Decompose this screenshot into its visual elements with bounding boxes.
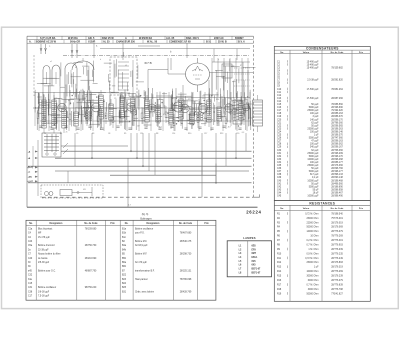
svg-text:28/747.060: 28/747.060 bbox=[331, 138, 343, 140]
svg-text:2n: 2n bbox=[226, 120, 228, 122]
svg-text:C20: C20 bbox=[236, 133, 239, 135]
svg-text:28/287.266: 28/287.266 bbox=[331, 98, 343, 100]
svg-text:28/196.370: 28/196.370 bbox=[331, 135, 343, 137]
svg-text:No. de Code: No. de Code bbox=[179, 223, 193, 225]
svg-text:10000 Ohm: 10000 Ohm bbox=[306, 271, 318, 273]
svg-text:C13: C13 bbox=[277, 98, 282, 100]
svg-text:C10: C10 bbox=[277, 89, 282, 91]
svg-text:R17: R17 bbox=[277, 284, 282, 286]
svg-text:Valeur: Valeur bbox=[303, 208, 310, 210]
svg-text:28/776.235: 28/776.235 bbox=[331, 253, 343, 255]
svg-text:Bobine pour O.C.: Bobine pour O.C. bbox=[38, 269, 56, 272]
svg-text:b: b bbox=[100, 59, 101, 61]
svg-text:28/325.131: 28/325.131 bbox=[180, 270, 192, 272]
svg-text:Désignation: Désignation bbox=[50, 222, 64, 225]
svg-text:78/286.560: 78/286.560 bbox=[331, 104, 343, 106]
svg-text:28/296.170: 28/296.170 bbox=[331, 119, 343, 121]
svg-text:B24: B24 bbox=[122, 283, 127, 285]
svg-text:Valeur: Valeur bbox=[303, 52, 310, 54]
svg-text:140 µµF: 140 µµF bbox=[310, 119, 319, 121]
svg-text:617 µµF: 617 µµF bbox=[310, 174, 319, 176]
svg-text:Bobine d'accord: Bobine d'accord bbox=[38, 244, 55, 247]
svg-text:78/159.682: 78/159.682 bbox=[331, 67, 343, 69]
svg-text:7,5-38 µµF: 7,5-38 µµF bbox=[38, 296, 50, 298]
svg-text:28/196.263: 28/196.263 bbox=[331, 128, 343, 130]
svg-text:25000 Ohm: 25000 Ohm bbox=[306, 262, 318, 264]
svg-text:a1: a1 bbox=[50, 61, 52, 63]
svg-text:28/176.069: 28/176.069 bbox=[331, 227, 343, 229]
svg-text:a: a bbox=[212, 119, 213, 121]
svg-text:Noyau bobine du fibre: Noyau bobine du fibre bbox=[38, 253, 61, 256]
svg-text:28/196.177: 28/196.177 bbox=[331, 171, 343, 173]
svg-text:28/296.565: 28/296.565 bbox=[331, 125, 343, 127]
svg-text:98/756.240: 98/756.240 bbox=[85, 287, 97, 289]
svg-text:28/756.760: 28/756.760 bbox=[85, 245, 97, 247]
svg-text:No. de Code: No. de Code bbox=[331, 208, 345, 210]
svg-text:C31: C31 bbox=[28, 287, 33, 289]
svg-text:Bobine M.F.: Bobine M.F. bbox=[135, 241, 147, 243]
svg-text:50000 Ohm: 50000 Ohm bbox=[306, 227, 318, 229]
svg-text:0,2 M. Ohm: 0,2 M. Ohm bbox=[307, 240, 319, 242]
svg-text:C22: C22 bbox=[277, 125, 282, 127]
svg-text:MF: MF bbox=[38, 233, 42, 235]
svg-text:15-490 µµF: 15-490 µµF bbox=[307, 67, 319, 69]
svg-text:C40: C40 bbox=[28, 258, 33, 260]
svg-text:0,5: 0,5 bbox=[55, 106, 57, 108]
svg-text:62 µµF: 62 µµF bbox=[311, 122, 319, 124]
svg-text:10000 µµF: 10000 µµF bbox=[307, 159, 319, 161]
svg-text:48/887.790: 48/887.790 bbox=[85, 270, 97, 272]
svg-text:50 µµF: 50 µµF bbox=[311, 168, 319, 170]
svg-text:32-170 µµF: 32-170 µµF bbox=[135, 262, 147, 264]
svg-text:C12: C12 bbox=[143, 98, 146, 100]
svg-text:1 µF: 1 µF bbox=[314, 267, 319, 269]
svg-text:Désignation: Désignation bbox=[147, 222, 161, 225]
svg-text:0,1: 0,1 bbox=[240, 115, 242, 117]
svg-text:28/296.766: 28/296.766 bbox=[331, 168, 343, 170]
svg-text:C14: C14 bbox=[277, 101, 282, 103]
svg-text:C23: C23 bbox=[28, 241, 33, 243]
svg-text:14000 Ohm: 14000 Ohm bbox=[306, 231, 318, 233]
svg-text:28/776.798: 28/776.798 bbox=[331, 289, 343, 291]
svg-text:R10: R10 bbox=[188, 133, 191, 135]
svg-text:2n: 2n bbox=[66, 132, 68, 134]
svg-text:25000 µµF: 25000 µµF bbox=[307, 110, 319, 112]
svg-text:A.: A. bbox=[29, 41, 32, 44]
svg-text:6I7 B: 6I7 B bbox=[145, 61, 152, 65]
svg-text:C32: C32 bbox=[28, 275, 33, 277]
svg-text:R13: R13 bbox=[220, 133, 223, 135]
svg-text:28/776.039: 28/776.039 bbox=[331, 249, 343, 251]
svg-text:C41: C41 bbox=[277, 183, 282, 185]
svg-text:+(B): +(B) bbox=[28, 177, 32, 179]
svg-text:540 µµF: 540 µµF bbox=[310, 147, 319, 149]
svg-text:C21: C21 bbox=[228, 98, 231, 100]
svg-text:No. de Code: No. de Code bbox=[331, 52, 345, 54]
svg-text:C29: C29 bbox=[277, 147, 282, 149]
svg-text:28/296.468: 28/296.468 bbox=[331, 159, 343, 161]
svg-text:28/546.175: 28/546.175 bbox=[180, 241, 192, 243]
svg-text:22-38 µµF: 22-38 µµF bbox=[38, 249, 49, 251]
svg-text:6E8: 6E8 bbox=[252, 245, 257, 247]
svg-text:6M7: 6M7 bbox=[252, 253, 257, 255]
svg-text:C1: C1 bbox=[40, 99, 42, 101]
svg-text:25000 µµF: 25000 µµF bbox=[307, 165, 319, 167]
svg-text:Bobine oscillateur: Bobine oscillateur bbox=[38, 286, 56, 289]
svg-text:C34: C34 bbox=[277, 162, 282, 164]
svg-text:R14: R14 bbox=[277, 271, 282, 273]
svg-text:757/76.019: 757/76.019 bbox=[331, 218, 343, 220]
svg-text:3000 Ohm: 3000 Ohm bbox=[308, 289, 319, 291]
svg-text:10k: 10k bbox=[193, 102, 196, 104]
svg-text:C11: C11 bbox=[140, 133, 143, 135]
svg-text:3 µµF: 3 µµF bbox=[313, 116, 320, 118]
svg-text:R2: R2 bbox=[68, 100, 70, 102]
svg-text:62 µµF: 62 µµF bbox=[311, 150, 319, 152]
svg-text:LAMPES: LAMPES bbox=[243, 236, 255, 240]
svg-text:B23: B23 bbox=[122, 279, 127, 281]
svg-text:470: 470 bbox=[149, 112, 152, 114]
svg-text:R15: R15 bbox=[277, 276, 282, 278]
svg-text:28/776.903: 28/776.903 bbox=[331, 244, 343, 246]
svg-text:28/286.177: 28/286.177 bbox=[331, 162, 343, 164]
svg-text:0,7 M. Ohm: 0,7 M. Ohm bbox=[307, 244, 319, 246]
svg-text:R12: R12 bbox=[277, 262, 282, 264]
svg-text:4,7: 4,7 bbox=[128, 205, 131, 207]
svg-text:EF9: EF9 bbox=[252, 249, 257, 251]
svg-text:B 51: B 51 bbox=[206, 41, 212, 44]
svg-text:CONDENSE 2.R 65: CONDENSE 2.R 65 bbox=[169, 41, 191, 44]
svg-text:25000 µµF: 25000 µµF bbox=[307, 153, 319, 155]
svg-text:6,3: 6,3 bbox=[242, 132, 244, 134]
svg-text:78/159.680: 78/159.680 bbox=[85, 228, 97, 230]
svg-text:28/496.560: 28/496.560 bbox=[331, 183, 343, 185]
svg-text:28/176.019: 28/176.019 bbox=[331, 222, 343, 224]
svg-text:B22: B22 bbox=[122, 275, 127, 277]
svg-text:28/776.839: 28/776.839 bbox=[331, 284, 343, 286]
svg-text:Bobine oscillateur: Bobine oscillateur bbox=[135, 227, 153, 230]
svg-text:28/286.163: 28/286.163 bbox=[331, 113, 343, 115]
svg-text:R5: R5 bbox=[124, 133, 126, 135]
svg-text:50 µµF: 50 µµF bbox=[311, 125, 319, 127]
svg-text:R6: R6 bbox=[128, 99, 130, 101]
svg-text:28/286.958: 28/286.958 bbox=[331, 189, 343, 191]
svg-text:50 µµF: 50 µµF bbox=[311, 183, 319, 185]
svg-text:6V6: 6V6 bbox=[252, 261, 257, 263]
svg-text:R16: R16 bbox=[277, 280, 282, 282]
svg-text:78/776.269: 78/776.269 bbox=[331, 236, 343, 238]
svg-text:R16: R16 bbox=[244, 99, 247, 101]
svg-text:16 µF: 16 µF bbox=[313, 192, 320, 194]
svg-text:C38: C38 bbox=[277, 174, 282, 176]
svg-text:k3: k3 bbox=[125, 65, 127, 67]
svg-text:50 µµF: 50 µµF bbox=[311, 104, 319, 106]
svg-text:C12: C12 bbox=[277, 95, 282, 97]
svg-text:470: 470 bbox=[64, 116, 67, 118]
svg-text:RESISTANCES: RESISTANCES bbox=[309, 202, 335, 206]
svg-text:10000 µµF: 10000 µµF bbox=[307, 180, 319, 182]
svg-text:C5: C5 bbox=[76, 133, 78, 135]
svg-text:C18: C18 bbox=[277, 113, 282, 115]
svg-text:17-530 µµF: 17-530 µµF bbox=[307, 89, 319, 91]
svg-text:C43: C43 bbox=[277, 189, 282, 191]
svg-text:25: 25 bbox=[110, 119, 112, 121]
svg-text:C42: C42 bbox=[277, 186, 282, 188]
svg-text:C36: C36 bbox=[277, 168, 282, 170]
svg-text:28/216.690: 28/216.690 bbox=[85, 258, 97, 260]
svg-text:6,3: 6,3 bbox=[122, 100, 124, 102]
svg-text:Prix: Prix bbox=[110, 222, 115, 225]
svg-text:28/196.690: 28/196.690 bbox=[331, 107, 343, 109]
svg-text:25000 µµF: 25000 µµF bbox=[307, 128, 319, 130]
svg-text:4k7: 4k7 bbox=[228, 127, 231, 129]
svg-text:W.AL. 50: W.AL. 50 bbox=[147, 41, 158, 44]
svg-text:R14: R14 bbox=[216, 99, 219, 101]
svg-text:B4a: B4a bbox=[122, 245, 127, 247]
svg-text:B871-67: B871-67 bbox=[252, 269, 262, 271]
svg-text:R13: R13 bbox=[277, 267, 282, 269]
svg-text:25 W. B: 25 W. B bbox=[218, 41, 227, 44]
svg-text:28/396.490: 28/396.490 bbox=[331, 196, 343, 198]
svg-text:50000 Ohm: 50000 Ohm bbox=[306, 293, 318, 295]
svg-text:C21: C21 bbox=[277, 122, 282, 124]
svg-text:C30: C30 bbox=[277, 150, 282, 152]
svg-text:C27: C27 bbox=[277, 141, 282, 143]
svg-text:R3: R3 bbox=[92, 133, 94, 135]
svg-text:AL 25: AL 25 bbox=[103, 41, 110, 44]
svg-text:C44: C44 bbox=[277, 192, 282, 194]
svg-text:28/286.362: 28/286.362 bbox=[331, 144, 343, 146]
svg-text:47 µµF: 47 µµF bbox=[311, 141, 319, 143]
svg-text:78/487.680: 78/487.680 bbox=[180, 233, 192, 235]
svg-text:5000 µµF: 5000 µµF bbox=[309, 186, 319, 188]
svg-text:28/776.079: 28/776.079 bbox=[331, 231, 343, 233]
svg-text:C1a: C1a bbox=[28, 228, 33, 230]
svg-text:1 µF: 1 µF bbox=[314, 135, 319, 137]
svg-text:B1a: B1a bbox=[122, 228, 127, 230]
svg-text:0,9 M. Ohm: 0,9 M. Ohm bbox=[307, 253, 319, 255]
svg-text:100 µµF: 100 µµF bbox=[310, 113, 319, 115]
svg-text:R9: R9 bbox=[159, 99, 161, 101]
svg-text:100 µµF: 100 µµF bbox=[310, 162, 319, 164]
svg-text:100 µµF: 100 µµF bbox=[310, 131, 319, 133]
svg-text:28/196.467: 28/196.467 bbox=[331, 192, 343, 194]
svg-text:C2: C2 bbox=[44, 133, 46, 135]
svg-text:B.V. 6: B.V. 6 bbox=[238, 41, 245, 44]
svg-text:Prix: Prix bbox=[204, 222, 209, 225]
svg-text:28/196.170: 28/196.170 bbox=[331, 156, 343, 158]
svg-text:28/176.319: 28/176.319 bbox=[331, 267, 343, 269]
svg-text:22000 Ohm: 22000 Ohm bbox=[306, 222, 318, 224]
svg-text:(+)HT: (+)HT bbox=[28, 181, 34, 183]
svg-text:Bloc bicontact: Bloc bicontact bbox=[38, 227, 53, 230]
svg-text:50: 50 bbox=[222, 116, 224, 118]
svg-text:28/786.360: 28/786.360 bbox=[331, 122, 343, 124]
svg-text:transformateur B.F.: transformateur B.F. bbox=[135, 269, 155, 272]
svg-text:B6a: B6a bbox=[122, 262, 127, 264]
svg-text:0,7 M. Ohm: 0,7 M. Ohm bbox=[307, 284, 319, 286]
svg-text:4k7: 4k7 bbox=[204, 118, 207, 120]
svg-text:B25: B25 bbox=[122, 287, 127, 289]
svg-text:C16: C16 bbox=[277, 107, 282, 109]
svg-text:28/293.148: 28/293.148 bbox=[331, 177, 343, 179]
svg-text:470: 470 bbox=[163, 114, 166, 116]
svg-text:C31: C31 bbox=[277, 153, 282, 155]
svg-text:C15: C15 bbox=[277, 104, 282, 106]
svg-text:No.: No. bbox=[125, 223, 129, 225]
svg-text:30000 Ohm: 30000 Ohm bbox=[306, 276, 318, 278]
svg-text:C23: C23 bbox=[277, 128, 282, 130]
svg-text:C17: C17 bbox=[277, 110, 282, 112]
svg-text:No.: No. bbox=[280, 208, 284, 210]
svg-text:28/281.820: 28/281.820 bbox=[331, 80, 343, 82]
svg-text:Châs. avec bobine: Châs. avec bobine bbox=[135, 291, 155, 293]
svg-text:28/428.769: 28/428.769 bbox=[180, 291, 192, 293]
svg-text:C5a: C5a bbox=[28, 245, 33, 247]
svg-text:B31: B31 bbox=[122, 291, 127, 293]
svg-text:C9: C9 bbox=[114, 98, 116, 100]
svg-text:0,1 µF: 0,1 µF bbox=[312, 177, 319, 179]
svg-text:28/176.366: 28/176.366 bbox=[331, 165, 343, 167]
svg-text:k2: k2 bbox=[217, 123, 219, 125]
svg-text:R11: R11 bbox=[188, 99, 191, 101]
svg-text:28/176.239: 28/176.239 bbox=[331, 276, 343, 278]
svg-text:CHANGEUR 250: CHANGEUR 250 bbox=[116, 41, 135, 44]
svg-text:EBL1: EBL1 bbox=[252, 257, 259, 259]
svg-text:28/776.319: 28/776.319 bbox=[331, 240, 343, 242]
svg-text:k2: k2 bbox=[101, 112, 103, 114]
svg-text:10 Ohm: 10 Ohm bbox=[310, 236, 318, 238]
svg-text:C7: C7 bbox=[84, 98, 86, 100]
svg-text:C35: C35 bbox=[277, 165, 282, 167]
svg-text:28/296.167: 28/296.167 bbox=[331, 147, 343, 149]
svg-text:0,5: 0,5 bbox=[205, 109, 207, 111]
svg-text:770/41.827: 770/41.827 bbox=[331, 293, 343, 295]
svg-text:5000 µµF: 5000 µµF bbox=[309, 156, 319, 158]
svg-text:28/766.366: 28/766.366 bbox=[331, 150, 343, 152]
svg-text:C17: C17 bbox=[204, 133, 207, 135]
svg-text:pour P.O.: pour P.O. bbox=[135, 232, 145, 235]
svg-text:(B+C): (B+C) bbox=[28, 167, 34, 169]
svg-text:17-530 µµF: 17-530 µµF bbox=[307, 98, 319, 100]
svg-text:CONDENSATEURS: CONDENSATEURS bbox=[306, 47, 339, 51]
svg-text:28/776.249: 28/776.249 bbox=[331, 258, 343, 260]
svg-text:No.: No. bbox=[29, 223, 33, 225]
svg-text:C19: C19 bbox=[277, 116, 282, 118]
svg-text:C32: C32 bbox=[277, 156, 282, 158]
svg-text:78/198.540: 78/198.540 bbox=[331, 213, 343, 215]
svg-text:6000 Ohm: 6000 Ohm bbox=[308, 280, 319, 282]
svg-text:28/286.146: 28/286.146 bbox=[331, 131, 343, 133]
svg-text:5000 µµF: 5000 µµF bbox=[309, 107, 319, 109]
svg-text:C17: C17 bbox=[28, 296, 33, 298]
svg-text:V.25/R: V.25/R bbox=[88, 41, 95, 44]
svg-text:50: 50 bbox=[187, 120, 189, 122]
svg-text:25000 Ohm: 25000 Ohm bbox=[306, 218, 318, 220]
svg-text:C14: C14 bbox=[172, 133, 175, 135]
svg-text:C26: C26 bbox=[277, 138, 282, 140]
svg-text:C15: C15 bbox=[173, 98, 176, 100]
svg-text:C38: C38 bbox=[28, 291, 33, 293]
svg-text:76/194.020: 76/194.020 bbox=[331, 110, 343, 112]
svg-text:32-63,9 µµF: 32-63,9 µµF bbox=[135, 245, 148, 247]
svg-text:Bobine M.F.: Bobine M.F. bbox=[135, 254, 147, 256]
svg-text:0,72 M. Ohm: 0,72 M. Ohm bbox=[305, 213, 318, 215]
svg-text:de bande: de bande bbox=[38, 258, 48, 260]
svg-text:28/196.299: 28/196.299 bbox=[331, 153, 343, 155]
svg-text:28/776.079: 28/776.079 bbox=[331, 280, 343, 282]
svg-text:S7: S7 bbox=[240, 65, 242, 67]
svg-text:28/186.690: 28/186.690 bbox=[331, 186, 343, 188]
svg-text:15-490 µµF: 15-490 µµF bbox=[307, 64, 319, 66]
svg-text:R19: R19 bbox=[277, 293, 282, 295]
svg-text:28/196.468: 28/196.468 bbox=[331, 180, 343, 182]
svg-text:C20: C20 bbox=[277, 119, 282, 121]
svg-text:50Hz GR: 50Hz GR bbox=[70, 41, 80, 44]
svg-text:C18: C18 bbox=[202, 98, 205, 100]
svg-text:10000 µµF: 10000 µµF bbox=[307, 196, 319, 198]
svg-text:B871-67: B871-67 bbox=[252, 272, 262, 274]
svg-text:2/5-38 µµF: 2/5-38 µµF bbox=[38, 262, 50, 264]
svg-text:28/396.133: 28/396.133 bbox=[331, 174, 343, 176]
svg-text:B5b: B5b bbox=[122, 258, 127, 260]
svg-text:a: a bbox=[228, 103, 229, 105]
svg-text:C39: C39 bbox=[277, 177, 282, 179]
svg-text:C45: C45 bbox=[277, 196, 282, 198]
svg-text:R18: R18 bbox=[277, 289, 282, 291]
svg-text:5000 µµF: 5000 µµF bbox=[309, 171, 319, 173]
svg-text:50: 50 bbox=[193, 108, 195, 110]
svg-text:No.: No. bbox=[280, 52, 284, 54]
svg-text:78/281.264: 78/281.264 bbox=[331, 89, 343, 91]
svg-text:28/776.269: 28/776.269 bbox=[331, 271, 343, 273]
svg-text:0,72 M. Ohm: 0,72 M. Ohm bbox=[305, 258, 318, 260]
svg-text:S2: S2 bbox=[75, 67, 77, 69]
svg-text:R4: R4 bbox=[100, 100, 102, 102]
svg-text:B4b: B4b bbox=[122, 249, 127, 251]
svg-text:78/786.098: 78/786.098 bbox=[180, 279, 192, 281]
svg-text:p: p bbox=[218, 59, 219, 61]
svg-text:C15: C15 bbox=[28, 283, 33, 285]
svg-text:B1b: B1b bbox=[122, 233, 127, 235]
svg-text:5000 µµF: 5000 µµF bbox=[309, 138, 319, 140]
svg-text:1 M. Ohm: 1 M. Ohm bbox=[308, 249, 318, 251]
svg-text:100 µµF: 100 µµF bbox=[310, 144, 319, 146]
svg-text:2,5-38 µµF: 2,5-38 µµF bbox=[307, 80, 319, 82]
svg-text:C28: C28 bbox=[277, 144, 282, 146]
svg-text:k2: k2 bbox=[227, 107, 229, 109]
svg-text:C3: C3 bbox=[55, 98, 57, 100]
svg-text:0,1: 0,1 bbox=[177, 121, 179, 123]
svg-text:R8: R8 bbox=[156, 133, 158, 135]
svg-text:25: 25 bbox=[234, 99, 236, 101]
svg-text:28/286.370: 28/286.370 bbox=[331, 116, 343, 118]
svg-text:C37: C37 bbox=[277, 171, 282, 173]
svg-text:R10: R10 bbox=[277, 253, 282, 255]
svg-text:B6b: B6b bbox=[122, 266, 127, 268]
svg-text:6,3: 6,3 bbox=[158, 123, 160, 125]
svg-text:(fig. 6): (fig. 6) bbox=[142, 214, 149, 216]
svg-text:C8: C8 bbox=[108, 133, 110, 135]
svg-text:C25: C25 bbox=[277, 135, 282, 137]
svg-text:15-176 µµF: 15-176 µµF bbox=[38, 237, 50, 239]
svg-text:15-490 µµF: 15-490 µµF bbox=[307, 61, 319, 63]
svg-text:C24: C24 bbox=[277, 131, 282, 133]
svg-text:Haut-parleur: Haut-parleur bbox=[135, 278, 148, 281]
svg-text:28/176.893: 28/176.893 bbox=[331, 262, 343, 264]
svg-text:C33: C33 bbox=[277, 159, 282, 161]
svg-text:28/296.163: 28/296.163 bbox=[331, 141, 343, 143]
